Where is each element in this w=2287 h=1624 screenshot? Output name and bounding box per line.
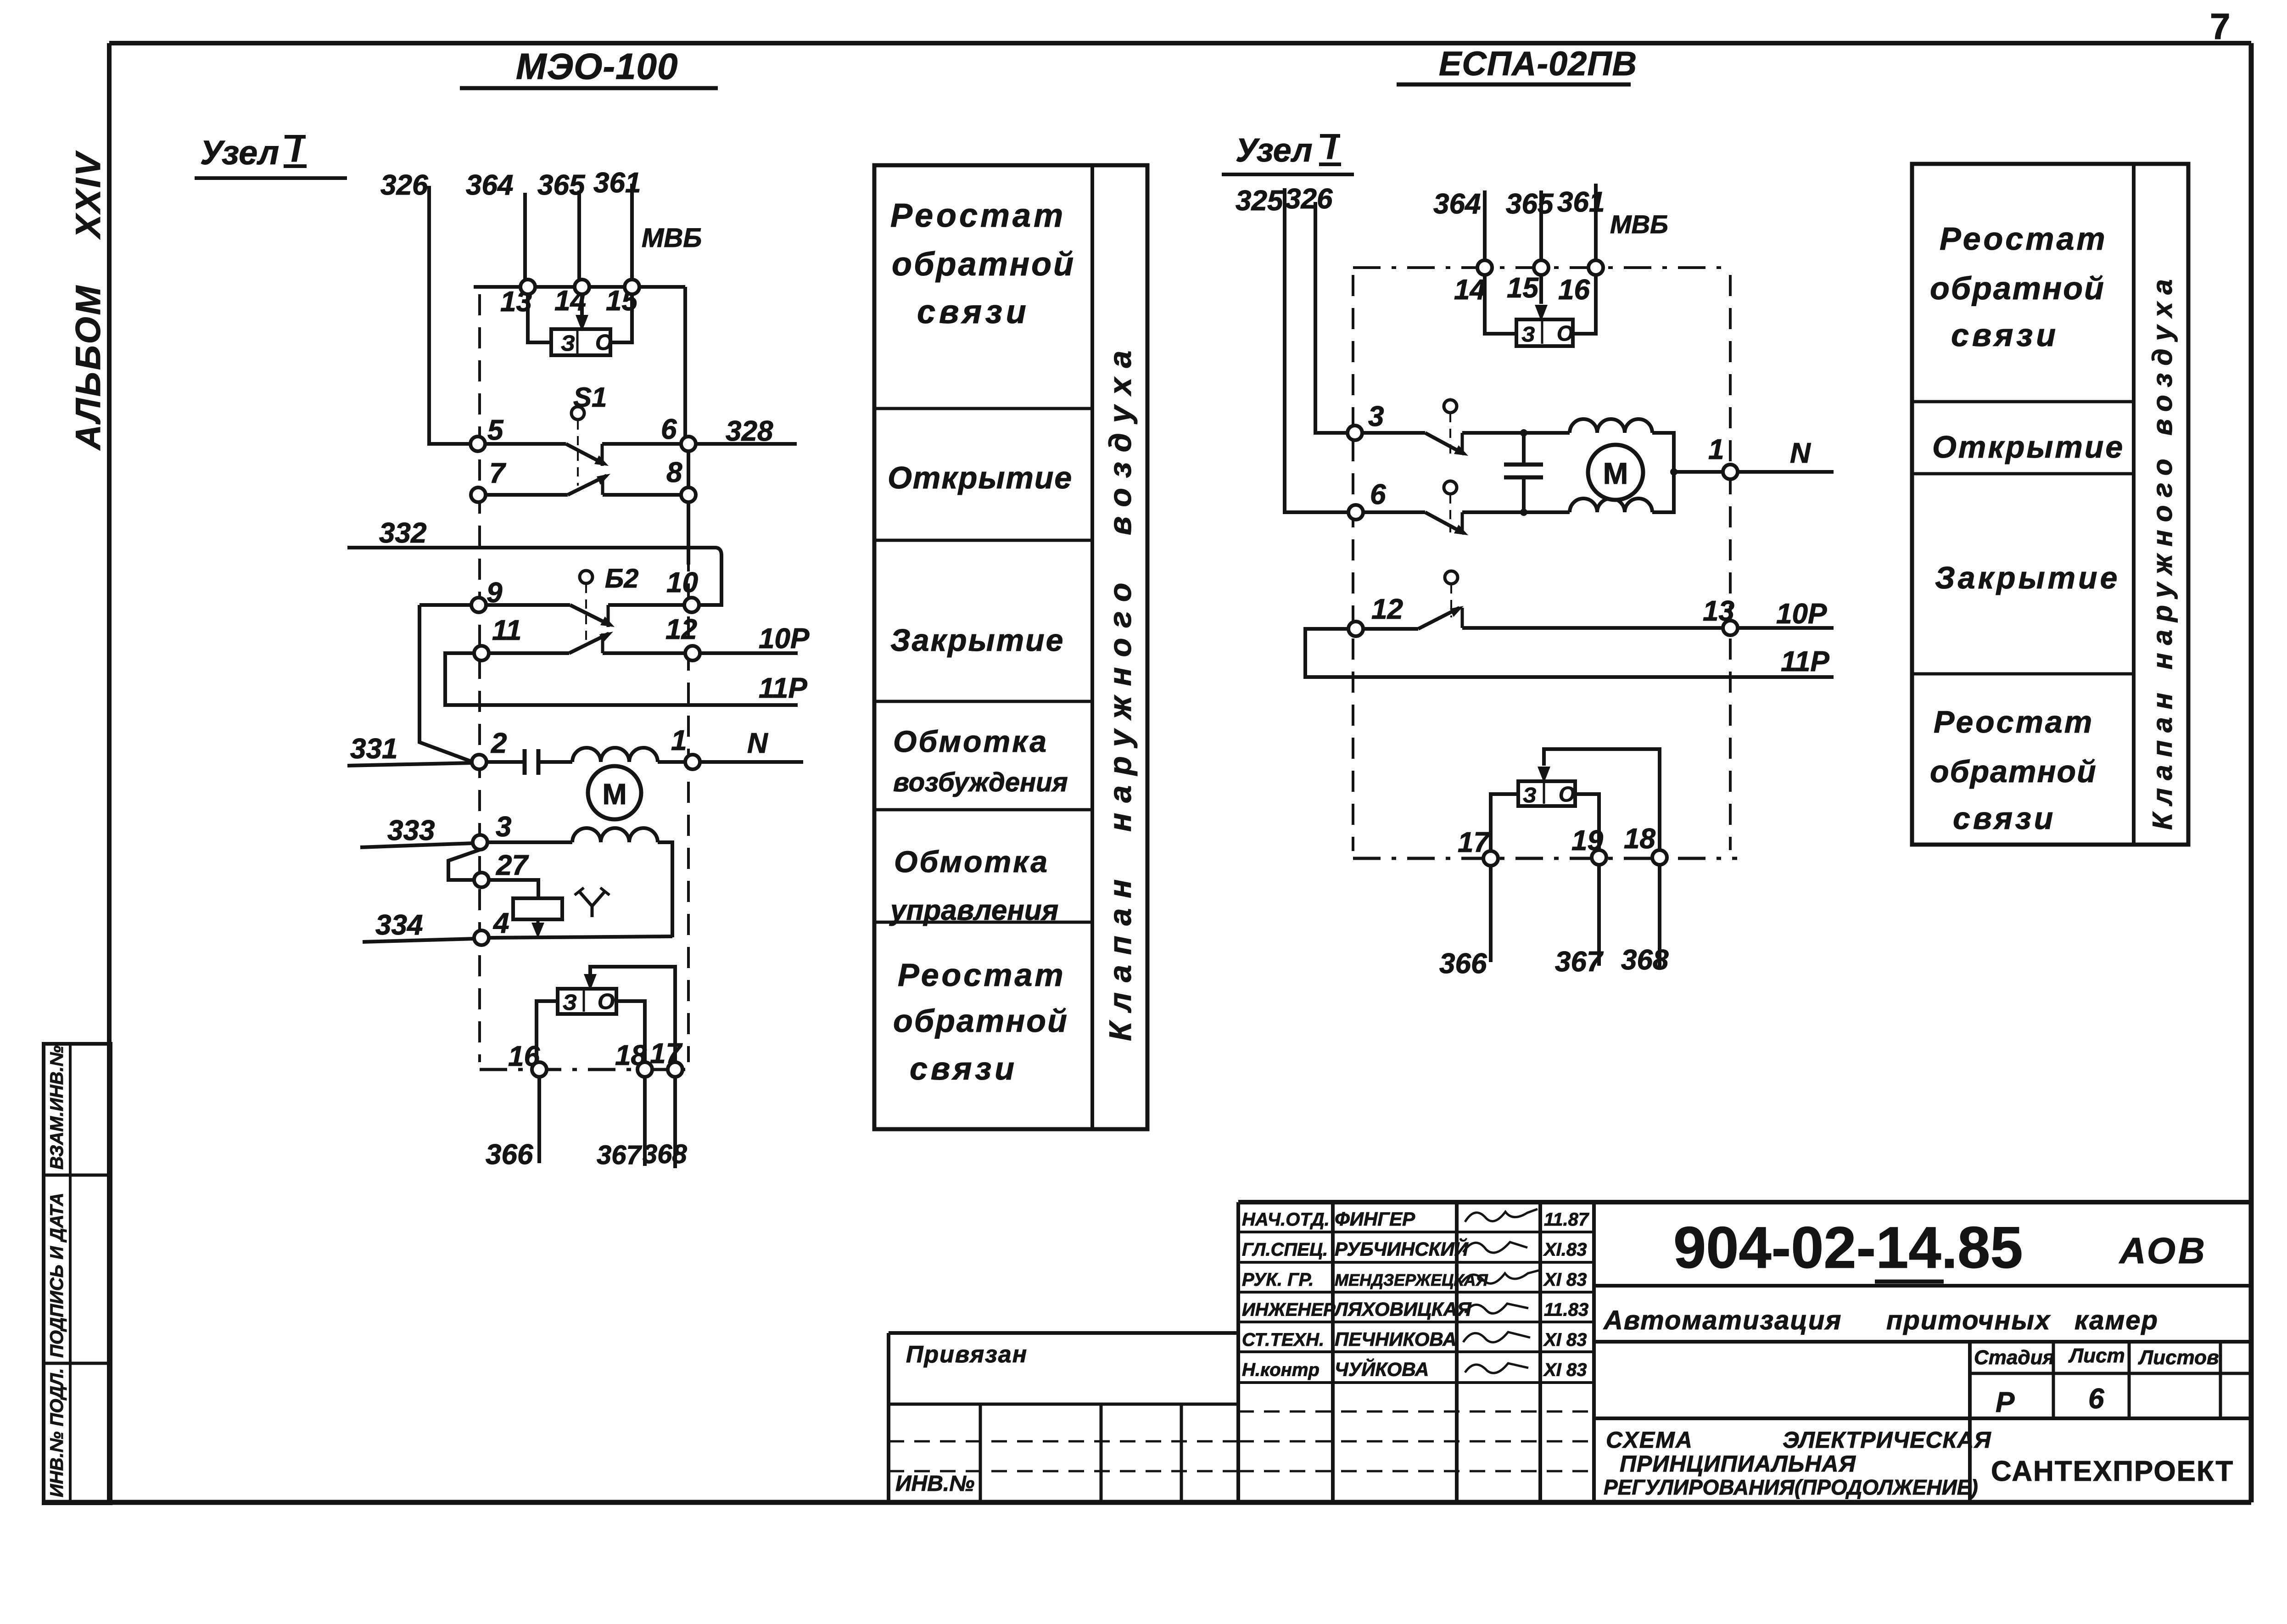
svg-text:ГЛ.СПЕЦ.: ГЛ.СПЕЦ.: [1242, 1240, 1328, 1260]
svg-text:12: 12: [665, 614, 697, 645]
svg-text:14: 14: [1454, 274, 1486, 306]
svg-text:I: I: [1326, 128, 1336, 166]
svg-text:О: О: [598, 990, 615, 1014]
svg-text:1: 1: [671, 725, 687, 756]
svg-text:ПЕЧНИКОВА: ПЕЧНИКОВА: [1335, 1328, 1457, 1350]
svg-text:ВЗАМ.ИНВ.№: ВЗАМ.ИНВ.№: [47, 1045, 67, 1170]
svg-text:27: 27: [496, 850, 529, 881]
svg-text:СТ.ТЕХН.: СТ.ТЕХН.: [1242, 1330, 1324, 1350]
svg-text:365: 365: [1506, 188, 1554, 220]
svg-text:обратной: обратной: [892, 246, 1075, 283]
svg-text:Узел: Узел: [1236, 132, 1313, 169]
svg-text:N: N: [1790, 437, 1811, 469]
svg-text:МЭО-100: МЭО-100: [516, 46, 678, 87]
svg-text:332: 332: [379, 517, 426, 549]
svg-text:5: 5: [487, 414, 504, 446]
svg-text:366: 366: [1439, 948, 1487, 980]
svg-text:368: 368: [1621, 944, 1669, 976]
svg-text:Н.контр: Н.контр: [1242, 1360, 1320, 1380]
svg-text:Закрытие: Закрытие: [890, 623, 1064, 658]
svg-text:О: О: [1559, 782, 1575, 806]
svg-text:ИНЖЕНЕР: ИНЖЕНЕР: [1242, 1300, 1336, 1320]
svg-text:Клапан наружного воздуха: Клапан наружного воздуха: [1103, 341, 1138, 1041]
svg-text:РЕГУЛИРОВАНИЯ(ПРОДОЛЖЕНИЕ): РЕГУЛИРОВАНИЯ(ПРОДОЛЖЕНИЕ): [1604, 1475, 1978, 1499]
svg-text:368: 368: [643, 1139, 688, 1169]
svg-text:4: 4: [492, 907, 509, 939]
svg-text:камер: камер: [2075, 1305, 2158, 1335]
svg-text:11Р: 11Р: [1781, 646, 1829, 678]
svg-text:11Р: 11Р: [759, 672, 807, 704]
svg-text:3: 3: [496, 811, 511, 843]
svg-text:XI 83: XI 83: [1543, 1360, 1587, 1380]
svg-text:N: N: [747, 728, 768, 759]
svg-text:ЭЛЕКТРИЧЕСКАЯ: ЭЛЕКТРИЧЕСКАЯ: [1783, 1427, 1991, 1453]
svg-text:АЛЬБОМ XXIV: АЛЬБОМ XXIV: [69, 151, 108, 451]
svg-text:Б2: Б2: [605, 564, 638, 594]
svg-text:367: 367: [597, 1140, 643, 1170]
svg-text:М: М: [602, 778, 626, 811]
svg-text:6: 6: [1370, 479, 1386, 510]
svg-text:7: 7: [489, 458, 506, 489]
svg-text:возбуждения: возбуждения: [893, 767, 1068, 797]
svg-text:10Р: 10Р: [759, 623, 810, 655]
svg-text:З: З: [1521, 322, 1535, 346]
svg-text:связи: связи: [910, 1051, 1018, 1086]
svg-text:Реостат: Реостат: [1934, 705, 2094, 739]
svg-text:Открытие: Открытие: [888, 460, 1073, 495]
svg-text:ФИНГЕР: ФИНГЕР: [1335, 1208, 1415, 1230]
svg-text:М: М: [1603, 456, 1628, 490]
svg-text:Закрытие: Закрытие: [1935, 560, 2120, 595]
svg-text:СХЕМА: СХЕМА: [1606, 1427, 1693, 1453]
svg-text:Клапан наружного воздуха: Клапан наружного воздуха: [2147, 271, 2178, 830]
svg-text:11.87: 11.87: [1544, 1210, 1589, 1230]
svg-text:326: 326: [380, 169, 428, 201]
svg-text:обратной: обратной: [893, 1003, 1068, 1039]
svg-text:18: 18: [1624, 823, 1655, 855]
svg-text:Р: Р: [1996, 1387, 2015, 1418]
svg-text:МВБ: МВБ: [642, 223, 702, 253]
svg-text:О: О: [595, 330, 612, 355]
svg-text:ЧУЙКОВА: ЧУЙКОВА: [1335, 1358, 1429, 1380]
svg-text:МВБ: МВБ: [1610, 210, 1668, 239]
svg-text:6: 6: [2088, 1383, 2104, 1415]
svg-text:2: 2: [491, 728, 507, 759]
svg-text:3: 3: [1368, 401, 1384, 432]
svg-text:11.83: 11.83: [1544, 1300, 1588, 1320]
svg-text:XI 83: XI 83: [1543, 1330, 1587, 1350]
svg-text:ИНВ.№ ПОДЛ.: ИНВ.№ ПОДЛ.: [47, 1368, 67, 1497]
svg-text:З: З: [563, 991, 577, 1015]
svg-text:Лист: Лист: [2068, 1344, 2125, 1367]
svg-text:10Р: 10Р: [1776, 598, 1827, 630]
svg-text:364: 364: [466, 169, 513, 201]
svg-text:331: 331: [350, 733, 397, 765]
svg-text:ИНВ.№: ИНВ.№: [895, 1472, 974, 1496]
svg-text:364: 364: [1433, 188, 1481, 220]
svg-text:ЕСПА-02ПВ: ЕСПА-02ПВ: [1439, 45, 1637, 83]
svg-text:Обмотка: Обмотка: [893, 724, 1048, 758]
svg-text:управления: управления: [889, 895, 1058, 926]
svg-text:333: 333: [387, 815, 435, 846]
svg-text:АОВ: АОВ: [2119, 1230, 2208, 1271]
svg-text:Открытие: Открытие: [1932, 430, 2125, 465]
svg-text:Стадия: Стадия: [1974, 1346, 2054, 1369]
svg-text:12: 12: [1371, 594, 1403, 625]
svg-text:РУК. ГР.: РУК. ГР.: [1242, 1270, 1314, 1290]
svg-text:ПРИНЦИПИАЛЬНАЯ: ПРИНЦИПИАЛЬНАЯ: [1620, 1451, 1856, 1477]
svg-text:З: З: [1523, 783, 1537, 807]
svg-text:8: 8: [666, 457, 682, 488]
svg-text:О: О: [1557, 321, 1573, 345]
svg-text:10: 10: [666, 567, 698, 599]
svg-text:Листов: Листов: [2138, 1346, 2219, 1369]
svg-text:связи: связи: [1953, 801, 2056, 836]
svg-text:обратной: обратной: [1930, 270, 2105, 306]
svg-text:16: 16: [1558, 274, 1590, 306]
svg-text:S1: S1: [573, 382, 607, 413]
svg-text:325: 325: [1236, 185, 1284, 217]
svg-text:367: 367: [1555, 946, 1604, 978]
svg-text:САНТЕХПРОЕКТ: САНТЕХПРОЕКТ: [1991, 1456, 2234, 1487]
svg-text:Реостат: Реостат: [898, 957, 1066, 993]
svg-text:З: З: [561, 331, 575, 356]
svg-text:15: 15: [1507, 272, 1539, 304]
svg-text:11: 11: [492, 615, 521, 646]
svg-text:334: 334: [375, 909, 423, 941]
svg-text:XI 83: XI 83: [1543, 1270, 1587, 1290]
svg-text:ПОДПИСЬ И ДАТА: ПОДПИСЬ И ДАТА: [47, 1193, 67, 1358]
svg-text:РУБЧИНСКИЙ: РУБЧИНСКИЙ: [1335, 1238, 1469, 1260]
svg-text:Узел: Узел: [200, 134, 279, 172]
svg-text:Реостат: Реостат: [890, 197, 1066, 234]
svg-text:обратной: обратной: [1930, 754, 2097, 789]
svg-text:Автоматизация: Автоматизация: [1603, 1305, 1842, 1335]
svg-text:ЛЯХОВИЦКАЯ: ЛЯХОВИЦКАЯ: [1333, 1299, 1472, 1320]
svg-text:1: 1: [1708, 434, 1724, 465]
svg-text:связи: связи: [1951, 317, 2059, 353]
svg-text:Реостат: Реостат: [1940, 221, 2108, 257]
svg-text:366: 366: [486, 1139, 533, 1170]
svg-text:приточных: приточных: [1886, 1305, 2051, 1335]
svg-text:Привязан: Привязан: [906, 1341, 1028, 1368]
svg-text:XI.83: XI.83: [1543, 1240, 1587, 1260]
svg-text:904-02-14.85: 904-02-14.85: [1673, 1215, 2023, 1281]
svg-text:7: 7: [2210, 6, 2231, 47]
svg-text:связи: связи: [917, 294, 1030, 330]
svg-text:326: 326: [1285, 183, 1333, 215]
svg-text:Обмотка: Обмотка: [894, 845, 1049, 879]
svg-text:6: 6: [661, 414, 677, 445]
svg-text:НАЧ.ОТД.: НАЧ.ОТД.: [1242, 1210, 1330, 1230]
